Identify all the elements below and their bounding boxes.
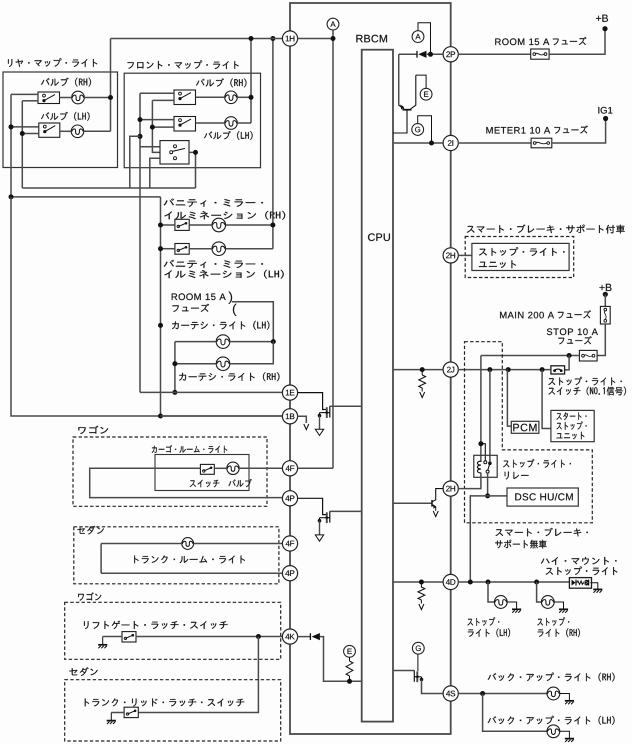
wire rear LH row — [60, 130, 111, 132]
node courtesy taps — [172, 361, 177, 395]
wire stop RH tail — [554, 602, 563, 609]
label fuse kana — [173, 304, 210, 312]
switch liftgate latch — [122, 632, 136, 642]
bulb courtesy LH — [216, 335, 230, 349]
offpage G circle — [412, 124, 424, 136]
label ROOM 15 A — [172, 293, 226, 300]
pin 1B — [282, 409, 297, 424]
CPU box U-CPU — [362, 50, 393, 722]
wire relay coil lead — [480, 444, 482, 462]
label ROOM fuse — [495, 37, 586, 45]
bulb cargo — [227, 462, 239, 474]
wire rear RH row — [60, 97, 111, 99]
stop light unit box — [472, 243, 569, 270]
wire Q3 source — [319, 521, 321, 535]
bulb stop light RH — [541, 596, 554, 609]
label courtesy LH — [172, 321, 269, 330]
label trunk lid latch switch — [85, 699, 244, 707]
pin 4P sedan — [282, 566, 297, 581]
label vanity mirror RH 1 — [164, 199, 263, 207]
switch vanity RH — [175, 219, 189, 230]
wire relay coil to 2H — [458, 473, 481, 489]
pin 2H upper — [443, 248, 458, 263]
wire latch riser — [138, 637, 258, 713]
switch front map LH — [174, 117, 196, 132]
ground 1B arrow — [304, 424, 309, 430]
wire front bus A — [139, 93, 141, 392]
offpage A top — [327, 18, 339, 30]
ground Q3 — [315, 535, 323, 541]
wire relay contact lead — [481, 444, 485, 461]
wire stop LH drop — [488, 582, 495, 602]
wire rear LH switch feeds — [11, 127, 39, 134]
node 4D tap — [419, 580, 424, 585]
wire R1 tail — [421, 388, 423, 392]
wire 2I to fuse — [458, 142, 531, 144]
label sedan 1 — [78, 526, 104, 535]
transistor Q5 FET — [414, 670, 423, 682]
node cross bus left — [9, 194, 14, 199]
wire rear RH switch feeds — [11, 94, 38, 100]
PCM box — [511, 421, 539, 433]
wire Q4 base — [393, 502, 432, 504]
bulb rear map RH — [72, 91, 85, 104]
wire E2 stem — [349, 657, 351, 661]
wire front bus B — [152, 100, 160, 152]
wire front bulbs riser — [250, 39, 252, 124]
label high mount 1 — [541, 557, 617, 565]
fuse MAIN 200A — [600, 306, 610, 324]
label relay 2 — [505, 472, 529, 480]
label PCM — [513, 424, 536, 432]
wire STOP fuse west — [481, 355, 580, 357]
wire net 1E — [140, 391, 283, 393]
wire fuse to IG1 — [552, 119, 606, 144]
bulb courtesy RH — [216, 357, 230, 371]
resistor R2 — [418, 587, 425, 600]
wire stop RH drop — [537, 582, 542, 602]
label stop LH 2 — [468, 628, 510, 637]
bulb rear map LH — [71, 125, 84, 138]
wire 4K diode — [297, 637, 361, 682]
offpage A circle — [412, 31, 424, 43]
node courtesy LH right — [271, 339, 276, 344]
label wagon 1 — [78, 426, 108, 434]
wire backup LH branch — [483, 694, 547, 732]
wire rear left bus A — [10, 94, 12, 196]
label MAIN fuse — [500, 310, 591, 318]
node front bus B tap — [150, 125, 155, 130]
wire backup RH tail — [560, 694, 570, 701]
bracket close — [229, 292, 233, 304]
label start stop 1 — [557, 412, 587, 420]
wire liftgate row — [103, 636, 283, 638]
fuse ROOM 15A — [531, 49, 549, 59]
switch rear map RH — [38, 92, 60, 104]
bulb vanity RH — [212, 218, 226, 232]
offpage G hook — [418, 116, 432, 143]
ground trunk lid — [107, 713, 116, 725]
high-mount stop light — [569, 578, 591, 589]
label +B mid — [600, 284, 612, 291]
wire +B to MAIN fuse — [604, 294, 606, 306]
wire vanity left bus — [160, 197, 162, 416]
node +B mid — [603, 292, 608, 297]
wire vanity right riser — [272, 39, 274, 249]
label METER1 fuse — [486, 126, 587, 134]
wire 2I link — [393, 142, 443, 144]
label cargo bulb — [229, 479, 252, 487]
node top line taps — [249, 36, 254, 41]
switch cargo — [200, 464, 214, 474]
ground Q4 arrow — [433, 511, 438, 517]
node 4K E junction — [347, 679, 352, 684]
pin 1H — [282, 31, 297, 46]
wire 1H to A riser — [297, 30, 333, 468]
wire bus A to map main switch — [140, 146, 160, 148]
wire cargo return loop — [90, 468, 283, 497]
diode D1 — [417, 51, 427, 58]
label STOP fuse 2 — [558, 336, 591, 344]
CPU label — [368, 233, 390, 241]
ground liftgate — [98, 637, 107, 649]
label bulb RH front — [196, 78, 246, 87]
ground high mount — [593, 589, 602, 592]
wire bus A westward jog — [130, 136, 140, 188]
node vanity bus taps — [158, 223, 163, 419]
label stop light unit 2 — [479, 260, 516, 268]
label STOP fuse 1 — [547, 328, 598, 335]
wire to PCM — [507, 370, 511, 427]
label courtesy RH — [179, 372, 279, 381]
transistor Q3 FET — [318, 511, 330, 523]
wire 2J resistor stem — [421, 370, 423, 375]
wire net 1B — [161, 415, 283, 417]
label backup RH — [488, 673, 615, 682]
wire cross bus y197 — [11, 196, 161, 198]
wire R3 tail — [349, 676, 351, 681]
relay box — [474, 455, 497, 477]
wire 2J inside — [393, 369, 443, 371]
node relay output — [485, 493, 490, 498]
label smart brake without 1 — [496, 528, 588, 537]
RBCM module box — [290, 3, 451, 734]
label backup LH — [488, 716, 615, 725]
wire 4D east — [458, 581, 569, 583]
wire MAIN to STOP fuse — [597, 324, 605, 356]
label wagon 2 — [78, 592, 101, 600]
ground stop LH — [512, 609, 521, 612]
label liftgate latch switch — [84, 621, 228, 629]
node rear bus A tap — [9, 124, 14, 129]
label trunk room light — [134, 556, 245, 564]
node liftgate branch — [256, 634, 261, 639]
ground backup LH — [565, 739, 574, 742]
trunk lid enclosure dashed — [65, 680, 281, 741]
node rear RH bulb junction — [108, 95, 113, 100]
wire 2H to stop unit — [458, 254, 472, 256]
wire high mount ground — [590, 583, 597, 589]
wire to start stop unit — [542, 370, 551, 429]
node 4S tap — [480, 691, 485, 696]
ground backup RH — [565, 701, 574, 704]
wire Q5 source — [422, 680, 444, 694]
wagon enclosure dashed — [73, 437, 267, 506]
wire relay output — [487, 473, 489, 496]
wire main switch output — [189, 152, 196, 188]
wire courtesy RH row — [175, 342, 273, 364]
wire rear left bus B — [21, 101, 23, 188]
wire 4S east — [458, 693, 547, 695]
diode D2 — [310, 633, 320, 640]
wire fuse-note stub — [232, 302, 273, 342]
wire courtesy LH row — [175, 341, 273, 343]
resistor R3 — [346, 661, 353, 676]
node +B top — [602, 26, 607, 31]
wire Q2 source — [319, 416, 321, 430]
start stop unit box — [551, 410, 594, 441]
wire trunk loop — [101, 544, 283, 574]
wire Q3 drain — [330, 510, 362, 512]
wire 4P gate — [297, 498, 326, 514]
label stop switch 1 — [548, 377, 621, 386]
label smart brake without 2 — [495, 540, 546, 549]
node 4D taps — [468, 580, 539, 585]
node main switch output — [193, 150, 198, 155]
ground 2J arrow — [420, 392, 425, 398]
wire 4D inside — [393, 581, 443, 583]
pin 4D — [443, 574, 458, 589]
label stop RH 1 — [537, 617, 569, 626]
node vanity right taps — [270, 36, 275, 228]
label stop RH 2 — [538, 628, 580, 637]
sbs-equipped dashed box — [465, 237, 574, 278]
wire relay feed — [480, 356, 482, 444]
offpage E circle — [420, 88, 432, 100]
label start stop 2 — [557, 421, 587, 429]
pin 4S — [443, 686, 458, 701]
wire top line to 1H — [111, 38, 283, 40]
node IG1 top — [603, 116, 608, 121]
label bulb RH rear — [41, 78, 91, 87]
bulb vanity LH — [212, 242, 226, 256]
label vanity mirror LH 1 — [164, 260, 263, 268]
switch trunk lid latch — [124, 707, 138, 717]
offpage E hook — [416, 75, 426, 88]
label sedan 2 — [69, 667, 97, 676]
DSC box — [507, 488, 578, 506]
pin 1E — [282, 385, 297, 400]
transistor Q4 — [432, 489, 443, 511]
node A riser — [331, 36, 336, 41]
wire trunk lid row — [111, 712, 124, 714]
label front map light — [128, 60, 239, 69]
pin 2H lower — [443, 481, 458, 496]
wire 4D resistor stem — [420, 582, 422, 588]
label vanity mirror RH 2 — [164, 211, 285, 220]
pin 4F sedan — [282, 536, 297, 551]
node 2J east taps — [487, 367, 544, 372]
wire 2J to relay contact — [489, 370, 491, 462]
label bulb LH front — [204, 131, 253, 140]
wire front LH row — [196, 122, 252, 124]
wire front LH switch feeds — [140, 120, 174, 128]
pin 4K — [282, 629, 297, 644]
wire Q5 drain — [393, 670, 414, 672]
transistor Q1 — [393, 54, 416, 133]
switch vanity LH — [175, 244, 189, 255]
relay contacts — [484, 461, 492, 473]
label start stop 3 — [557, 432, 585, 440]
pin 2J — [443, 362, 458, 377]
cargo light box — [155, 455, 249, 491]
node rear bus B tap — [20, 131, 25, 136]
label +B top — [596, 15, 608, 22]
wire 1E gate — [297, 393, 326, 410]
label stop switch 2 — [548, 387, 626, 396]
sbs-less dashed enclosure — [465, 342, 593, 523]
RBCM label — [356, 35, 387, 43]
label bulb LH rear — [41, 112, 90, 121]
switch front map RH — [174, 90, 196, 105]
transistor Q2 FET — [318, 406, 330, 418]
label cargo switch — [190, 480, 220, 488]
wire G2 stem — [417, 654, 419, 671]
fuse METER1 10A — [531, 138, 552, 148]
wire front RH switch feeds — [140, 93, 174, 100]
node front RH bulb junction — [249, 95, 254, 100]
wire 2P to fuse — [458, 53, 531, 55]
wire main switch lower contact — [150, 158, 160, 188]
wire stop LH tail — [507, 602, 516, 609]
front map main switch — [160, 141, 189, 164]
wire far-left riser to 1B — [11, 197, 283, 416]
node 2P diode — [428, 52, 433, 57]
node stop fuse tee — [567, 353, 572, 358]
label stop LH 1 — [467, 617, 499, 626]
wire tee to stop switch — [565, 356, 570, 370]
ground 4D arrow — [419, 604, 424, 610]
bulb backup RH — [547, 687, 560, 700]
bulb front map RH — [225, 91, 238, 104]
wire R2 tail — [420, 600, 422, 604]
wire rear bulbs riser — [110, 39, 112, 132]
pin 4F wagon — [282, 461, 297, 476]
node 2J tap — [420, 367, 425, 372]
label stop light unit 1 — [479, 247, 565, 256]
wire 2J east — [458, 369, 551, 371]
offpage G2 circle — [412, 642, 424, 654]
pin 4P wagon — [282, 491, 297, 506]
node relay feed split — [478, 441, 483, 446]
bulb backup LH — [547, 725, 560, 738]
resistor R1 — [419, 375, 426, 388]
relay coil — [477, 461, 480, 473]
rear map light enclosure — [3, 72, 118, 168]
label cargo room light — [152, 445, 227, 453]
wire cargo row — [214, 467, 282, 469]
wire 2P diode link — [399, 53, 444, 55]
ground Q2 — [315, 429, 323, 435]
label IG1 — [598, 107, 612, 114]
bracket open — [233, 304, 237, 316]
node front bus A taps — [138, 117, 143, 139]
offpage A hook — [418, 23, 431, 55]
wire fuse to +B — [549, 29, 605, 55]
liftgate enclosure dashed — [65, 602, 281, 659]
node 2I tap — [429, 141, 434, 146]
label high mount 2 — [546, 566, 618, 575]
sedan trunk enclosure dashed — [74, 527, 279, 584]
wire courtesy left bus — [174, 342, 176, 393]
wire backup LH tail — [560, 731, 570, 738]
pin 2P — [443, 47, 458, 62]
stop light switch — [551, 366, 565, 374]
wire vanity LH row — [161, 248, 273, 250]
label smart brake with — [467, 225, 625, 234]
pin 2I — [443, 135, 458, 150]
wire vanity RH row — [161, 224, 273, 226]
offpage E2 circle — [344, 645, 356, 657]
label vanity mirror LH 2 — [164, 270, 283, 279]
label relay 1 — [503, 459, 571, 468]
switch rear map LH — [39, 123, 60, 137]
ground stop RH — [559, 609, 568, 612]
bulb trunk room — [182, 538, 194, 550]
wire front RH row — [196, 96, 252, 98]
label DSC — [515, 493, 572, 500]
wire DSC link — [470, 496, 507, 582]
wire Q2 drain — [330, 405, 362, 407]
front map light enclosure — [124, 73, 260, 168]
fuse STOP 10A — [579, 350, 597, 361]
bulb front map LH — [225, 117, 238, 130]
wire cross bus y188 — [22, 187, 195, 189]
bulb stop light LH — [494, 596, 507, 609]
wire 1B stub — [297, 416, 306, 423]
label rear map light — [8, 58, 97, 67]
